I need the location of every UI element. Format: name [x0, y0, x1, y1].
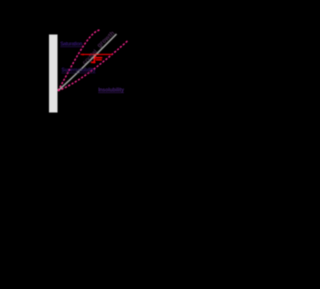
curve upper (supersolubility, pink dashed) [58, 30, 100, 91]
red measure line [81, 53, 113, 55]
svg-text:Insolubility: Insolubility [98, 87, 124, 93]
red F label [91, 56, 102, 63]
svg-text:Supersolubility: Supersolubility [62, 68, 97, 74]
svg-text:growth: growth [96, 30, 116, 50]
curve lower (solubility, pink dashed) [58, 41, 128, 91]
wall [49, 35, 58, 113]
red arrowhead left [80, 54, 83, 56]
gray arrow line [58, 34, 117, 91]
svg-text:Saturation: Saturation [60, 42, 82, 48]
